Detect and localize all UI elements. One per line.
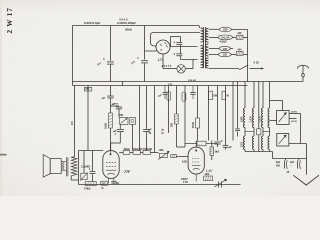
svg-text:DW: DW [119,114,124,117]
svg-text:0,005: 0,005 [251,116,253,122]
svg-text:2 W 17: 2 W 17 [6,7,14,33]
svg-text:· · ·: · · · [198,143,202,146]
svg-text:μF: μF [157,94,162,98]
svg-text:# 22: # 22 [254,61,260,65]
svg-text:0,5: 0,5 [71,121,74,125]
svg-text:0,005±0,005μF: 0,005±0,005μF [117,21,136,25]
svg-text:10kΩ: 10kΩ [105,123,108,129]
svg-text:450: 450 [276,165,281,168]
svg-text:#24: #24 [238,48,243,51]
svg-text:150: 150 [223,47,228,51]
svg-text:125: 125 [223,53,228,57]
svg-text:2×2.5A: 2×2.5A [221,36,230,40]
svg-text:4 5 3 7 4: 4 5 3 7 4 [162,65,172,68]
svg-text:47kΩ: 47kΩ [84,186,90,190]
svg-text:μF: μF [111,102,116,106]
svg-text:#28: #28 [238,32,243,35]
svg-text:30kΩ: 30kΩ [125,28,133,32]
svg-text:(2,9V): (2,9V) [291,112,297,114]
svg-text:0,005-0,5μF: 0,005-0,5μF [84,21,101,25]
svg-text:4,5kΩ: 4,5kΩ [220,39,227,43]
svg-text:··: ·· [290,165,292,168]
svg-text:A2Ω: A2Ω [182,160,187,163]
svg-text:50kΩ1W: 50kΩ1W [133,149,143,151]
svg-text:50kΩ1W: 50kΩ1W [143,149,153,151]
svg-text:μF: μF [101,96,106,100]
svg-text:4Ω: 4Ω [116,182,119,185]
svg-text:20kΩ: 20kΩ [124,148,130,151]
svg-text:1000: 1000 [242,141,244,147]
svg-text:77F: 77F [124,170,131,174]
svg-text:0,005: 0,005 [260,116,262,122]
svg-text:3/16 4/5: 3/16 4/5 [188,79,197,82]
svg-text:μF: μF [228,146,233,149]
svg-text:μF: μF [148,128,153,132]
svg-text:25.5k: 25.5k [192,121,195,128]
svg-text:C: C [221,139,223,143]
svg-text:B 15: B 15 [162,128,165,134]
svg-text:·WΩ: ·WΩ [159,149,164,152]
svg-text:2kΩ: 2kΩ [205,173,210,176]
svg-text:1000: 1000 [241,116,244,122]
svg-text:250: 250 [171,122,174,127]
svg-text:4 53: 4 53 [183,181,188,184]
svg-text:3kΩ: 3kΩ [215,151,220,154]
svg-text:Ω: Ω [102,187,104,190]
svg-text:(0,9V): (0,9V) [291,121,297,123]
svg-text:220: 220 [223,28,228,32]
